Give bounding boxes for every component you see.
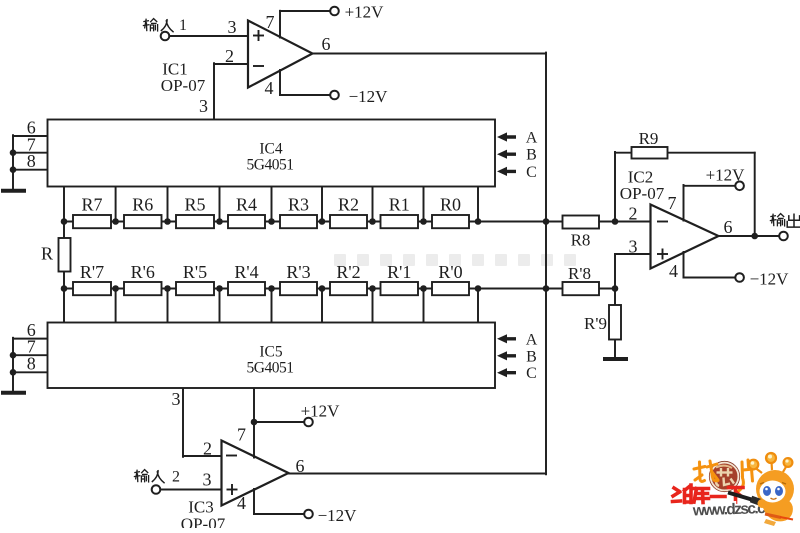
svg-text:1: 1 <box>179 17 187 34</box>
svg-text:4: 4 <box>669 261 678 281</box>
svg-text:R6: R6 <box>132 195 153 215</box>
svg-text:R'8: R'8 <box>568 264 591 283</box>
svg-text:R0: R0 <box>440 195 461 215</box>
svg-text:−12V: −12V <box>349 87 389 106</box>
svg-text:B: B <box>526 147 537 164</box>
svg-text:−12V: −12V <box>318 506 358 525</box>
svg-text:8: 8 <box>27 354 36 374</box>
svg-text:R'3: R'3 <box>286 262 310 282</box>
svg-text:2: 2 <box>203 439 212 459</box>
svg-text:R'9: R'9 <box>584 314 607 333</box>
svg-text:R7: R7 <box>81 195 102 215</box>
svg-text:3: 3 <box>172 389 181 409</box>
svg-text:−12V: −12V <box>750 270 790 289</box>
svg-text:R'7: R'7 <box>80 262 104 282</box>
svg-text:R5: R5 <box>184 195 205 215</box>
svg-text:3: 3 <box>228 17 237 37</box>
svg-text:B: B <box>526 348 537 365</box>
svg-text:R3: R3 <box>288 195 309 215</box>
svg-text:3: 3 <box>203 470 212 490</box>
svg-text:R2: R2 <box>338 195 359 215</box>
svg-text:5G4051: 5G4051 <box>247 360 294 377</box>
svg-text:6: 6 <box>296 456 305 476</box>
svg-text:R: R <box>41 244 53 264</box>
svg-text:2: 2 <box>172 469 180 486</box>
svg-text:4: 4 <box>265 78 274 98</box>
svg-text:OP-07: OP-07 <box>181 515 226 529</box>
svg-text:A: A <box>526 130 538 147</box>
svg-text:8: 8 <box>27 151 36 171</box>
svg-text:R'6: R'6 <box>131 262 155 282</box>
svg-text:R9: R9 <box>639 129 659 148</box>
svg-text:7: 7 <box>237 425 246 445</box>
svg-text:IC4: IC4 <box>259 141 283 158</box>
svg-text:2: 2 <box>225 46 234 66</box>
svg-text:C: C <box>526 164 537 181</box>
svg-text:OP-07: OP-07 <box>620 184 665 203</box>
svg-text:+12V: +12V <box>345 3 385 22</box>
svg-text:3: 3 <box>199 96 208 116</box>
svg-text:R'4: R'4 <box>234 262 258 282</box>
svg-text:6: 6 <box>724 217 733 237</box>
svg-text:OP-07: OP-07 <box>161 76 206 95</box>
svg-text:7: 7 <box>266 12 275 32</box>
svg-text:5G4051: 5G4051 <box>247 157 294 174</box>
svg-text:R4: R4 <box>236 195 257 215</box>
svg-text:IC5: IC5 <box>259 344 283 361</box>
svg-text:C: C <box>526 365 537 382</box>
svg-text:R'1: R'1 <box>387 262 411 282</box>
svg-text:R'2: R'2 <box>336 262 360 282</box>
svg-text:R8: R8 <box>571 231 591 250</box>
svg-text:4: 4 <box>237 493 246 513</box>
svg-text:7: 7 <box>668 193 677 213</box>
svg-text:A: A <box>526 331 538 348</box>
svg-text:2: 2 <box>629 204 638 224</box>
svg-text:3: 3 <box>629 237 638 257</box>
svg-text:R'0: R'0 <box>438 262 462 282</box>
svg-text:+12V: +12V <box>706 166 746 185</box>
svg-text:6: 6 <box>322 34 331 54</box>
svg-text:R1: R1 <box>389 195 410 215</box>
svg-text:R'5: R'5 <box>183 262 207 282</box>
svg-text:+12V: +12V <box>301 402 341 421</box>
